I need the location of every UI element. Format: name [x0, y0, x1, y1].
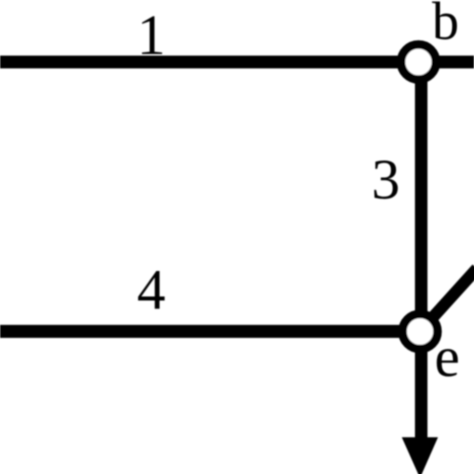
svg-text:b: b — [432, 0, 459, 51]
svg-text:4: 4 — [137, 259, 166, 322]
svg-text:3: 3 — [372, 149, 401, 212]
svg-text:1: 1 — [137, 4, 166, 67]
svg-text:e: e — [435, 326, 460, 389]
